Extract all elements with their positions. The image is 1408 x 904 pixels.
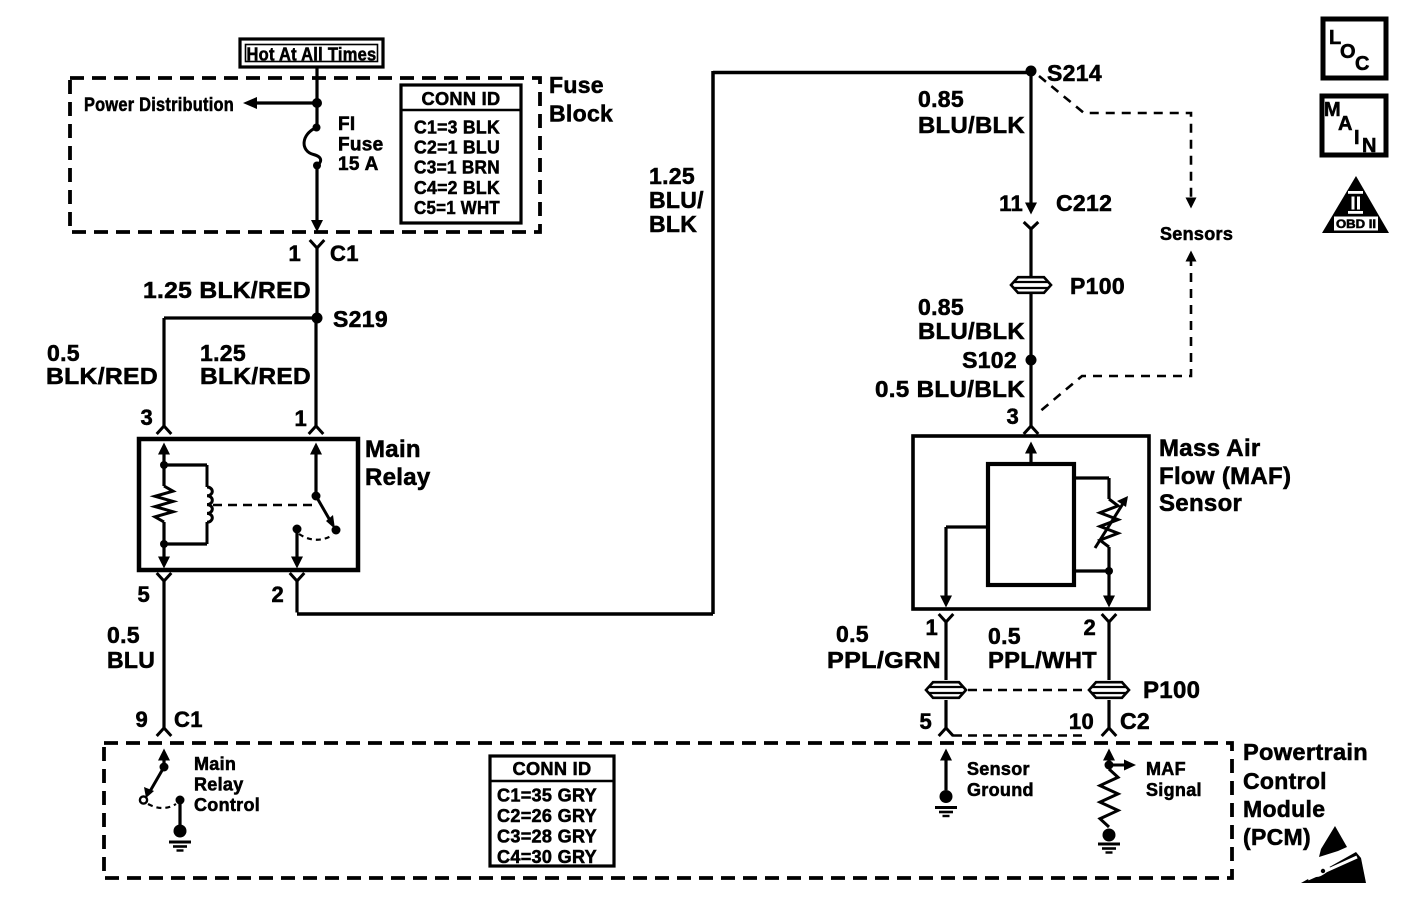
svg-text:Block: Block (549, 101, 613, 127)
svg-text:OBD II: OBD II (1336, 219, 1376, 231)
svg-text:3: 3 (140, 405, 153, 430)
svg-text:Control: Control (1243, 768, 1327, 794)
svg-text:Main: Main (365, 436, 421, 463)
svg-text:C1: C1 (330, 241, 359, 266)
svg-text:FI: FI (338, 114, 356, 135)
svg-text:S214: S214 (1047, 60, 1102, 86)
svg-text:Sensor: Sensor (1159, 490, 1242, 517)
svg-text:0.5: 0.5 (988, 623, 1021, 649)
svg-text:2: 2 (1083, 615, 1096, 640)
svg-text:P100: P100 (1143, 677, 1200, 704)
svg-text:BLK/RED: BLK/RED (200, 363, 311, 389)
svg-text:BLU/: BLU/ (649, 187, 704, 213)
svg-text:BLU/BLK: BLU/BLK (918, 112, 1025, 138)
svg-text:C212: C212 (1056, 190, 1112, 216)
svg-text:1: 1 (925, 615, 938, 640)
svg-text:Fuse: Fuse (338, 135, 384, 156)
svg-text:C1=3 BLK: C1=3 BLK (414, 118, 500, 138)
svg-text:1.25 BLK/RED: 1.25 BLK/RED (143, 277, 311, 303)
svg-text:9: 9 (135, 707, 148, 732)
svg-text:BLU: BLU (107, 647, 155, 673)
svg-text:0.85: 0.85 (918, 86, 964, 112)
svg-text:PPL/GRN: PPL/GRN (827, 647, 941, 673)
svg-text:C1: C1 (174, 707, 203, 732)
svg-text:C2: C2 (1120, 708, 1150, 734)
svg-text:I: I (1354, 127, 1360, 149)
svg-text:Sensors: Sensors (1160, 224, 1233, 244)
svg-text:Sensor: Sensor (967, 759, 1030, 779)
svg-text:0.85: 0.85 (918, 294, 964, 320)
svg-text:1: 1 (288, 241, 301, 266)
svg-text:Ground: Ground (967, 780, 1034, 800)
svg-text:Fuse: Fuse (549, 72, 604, 98)
svg-text:Power Distribution: Power Distribution (84, 95, 234, 116)
svg-text:Signal: Signal (1146, 780, 1202, 800)
svg-text:(PCM): (PCM) (1243, 824, 1311, 850)
svg-text:N: N (1362, 135, 1376, 157)
svg-text:Powertrain: Powertrain (1243, 739, 1368, 765)
svg-text:5: 5 (137, 582, 150, 607)
svg-text:C2=26 GRY: C2=26 GRY (497, 806, 597, 826)
svg-text:O: O (1340, 41, 1356, 63)
svg-text:A: A (1338, 113, 1352, 135)
svg-text:MAF: MAF (1146, 759, 1186, 779)
svg-text:5: 5 (919, 709, 932, 734)
svg-text:Main: Main (194, 754, 236, 774)
svg-text:Mass Air: Mass Air (1159, 435, 1261, 462)
svg-text:Flow (MAF): Flow (MAF) (1159, 463, 1291, 490)
svg-text:0.5: 0.5 (107, 622, 140, 648)
svg-text:PPL/WHT: PPL/WHT (988, 647, 1097, 673)
svg-text:C3=28 GRY: C3=28 GRY (497, 827, 597, 847)
svg-text:C3=1 BRN: C3=1 BRN (414, 158, 500, 178)
svg-text:Module: Module (1243, 796, 1325, 822)
svg-text:15 A: 15 A (338, 154, 379, 175)
svg-text:1: 1 (294, 406, 307, 431)
svg-text:3: 3 (1006, 404, 1019, 429)
svg-text:S102: S102 (962, 347, 1017, 373)
svg-text:Control: Control (194, 795, 260, 815)
svg-text:C2=1 BLU: C2=1 BLU (414, 138, 500, 158)
svg-text:C5=1 WHT: C5=1 WHT (414, 198, 500, 218)
svg-text:C4=30 GRY: C4=30 GRY (497, 847, 597, 867)
svg-text:0.5: 0.5 (836, 621, 869, 647)
svg-text:BLK/RED: BLK/RED (46, 363, 158, 389)
svg-text:CONN ID: CONN ID (422, 89, 501, 109)
svg-text:10: 10 (1069, 709, 1094, 734)
svg-text:11: 11 (999, 191, 1023, 216)
svg-text:CONN ID: CONN ID (513, 759, 592, 779)
svg-text:BLK: BLK (649, 211, 697, 237)
svg-text:C: C (1355, 53, 1369, 75)
svg-text:C1=35 GRY: C1=35 GRY (497, 786, 597, 806)
svg-text:S219: S219 (333, 306, 388, 332)
svg-text:0.5 BLU/BLK: 0.5 BLU/BLK (875, 376, 1025, 402)
svg-text:Relay: Relay (365, 464, 431, 491)
svg-text:BLU/BLK: BLU/BLK (918, 318, 1025, 344)
svg-text:1.25: 1.25 (649, 163, 695, 189)
svg-text:P100: P100 (1070, 273, 1125, 299)
svg-text:Hot At All Times: Hot At All Times (247, 45, 377, 65)
svg-text:2: 2 (271, 582, 284, 607)
svg-text:C4=2 BLK: C4=2 BLK (414, 178, 500, 198)
svg-text:Relay: Relay (194, 775, 244, 795)
